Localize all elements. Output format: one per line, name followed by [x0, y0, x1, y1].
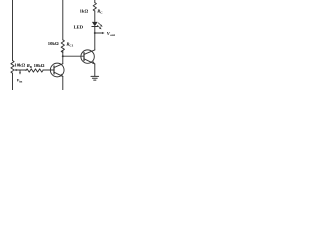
svg-text:in: in [19, 79, 22, 83]
svg-text:10kΩ: 10kΩ [14, 63, 25, 68]
wire Q2 emitter to ground [94, 64, 96, 76]
wire left rail bottom [12, 73, 14, 90]
node A junction dot [62, 55, 64, 57]
wire RC to LED anode [94, 11, 96, 22]
svg-text:1kΩ: 1kΩ [80, 8, 89, 13]
diode LED [92, 22, 98, 27]
transistor Q2 [81, 50, 95, 64]
wire left rail top [12, 0, 14, 61]
node Vout junction dot [94, 32, 96, 34]
wire RB to Q1 base [43, 69, 54, 71]
resistor RB body [26, 69, 43, 72]
potentiometer R1 10k body [11, 61, 14, 74]
wire LED cathode to node Vout [94, 27, 96, 50]
wire RC1 to node A [62, 51, 64, 57]
transistor Q1 [50, 63, 64, 77]
LED emission arrows [97, 23, 102, 29]
svg-text:10kΩ: 10kΩ [48, 41, 59, 46]
wire node A to Q2 base [63, 55, 84, 57]
wire right rail top [94, 0, 96, 3]
wire Q1 emitter down [62, 76, 64, 90]
svg-text:10kΩ: 10kΩ [34, 63, 45, 68]
Vout tap arrow [95, 32, 103, 34]
resistor RC1 body [61, 40, 64, 53]
svg-text:LED: LED [74, 25, 84, 30]
wiper wire [15, 69, 26, 71]
ground [91, 76, 99, 80]
node vin arrow [19, 70, 21, 73]
resistor RC body [93, 3, 96, 11]
svg-text:C1: C1 [69, 43, 73, 47]
wire Q1 collector up to node A [62, 56, 64, 64]
wiper arrowhead [14, 69, 17, 71]
wire mid rail top [62, 0, 64, 40]
